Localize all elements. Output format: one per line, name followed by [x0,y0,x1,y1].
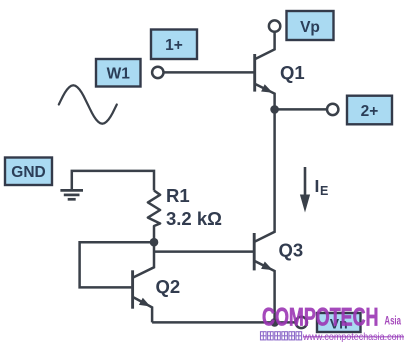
svg-text:1+: 1+ [165,37,183,54]
transistor Q2 (NPN) [133,242,154,322]
svg-text:Asia: Asia [384,316,401,328]
watermark chinese line [261,332,302,340]
ground symbol [60,190,83,199]
terminal circle at W1 [152,67,163,78]
feedback wire (Q2 base to collector node) [80,242,154,287]
label box 2+ [347,96,392,125]
svg-text:COMPOTECH: COMPOTECH [262,304,379,331]
GND wire and stem [72,171,154,191]
bottom wire (Q2 emitter to Vn terminal) [152,321,296,324]
sine wave symbol (W1 source) [59,85,117,123]
svg-text:Vp: Vp [300,19,320,36]
svg-text:Q2: Q2 [156,276,181,297]
svg-text:GND: GND [11,164,45,181]
label box Vp [287,11,334,40]
svg-text:R1: R1 [166,185,190,206]
terminal circle Vp [269,20,280,31]
transistor Q3 (NPN) [254,233,274,322]
svg-text:www.compotechasia.com: www.compotechasia.com [302,332,404,343]
wire W1 terminal to Q1 base [164,71,255,74]
junction dot below Q1 [270,105,279,114]
junction dot below R1 [150,238,159,247]
label box 1+ [151,30,197,60]
main vertical wire (Q1 emitter to Q3 collector) [254,109,274,242]
label box Vn [317,313,361,332]
svg-text:Q3: Q3 [279,240,304,261]
resistor R1 [148,191,160,243]
svg-text:Q1: Q1 [280,62,305,83]
watermark strike line [303,336,404,338]
svg-text:E: E [320,184,328,198]
current arrow IE [300,167,310,213]
svg-text:2+: 2+ [361,103,379,120]
IE label [315,176,329,198]
terminal circle Vn [296,317,307,328]
transistor Q1 (NPN) [255,32,275,110]
label box W1 [96,59,141,87]
junction dot bottom [270,318,279,327]
label box GND [5,158,52,186]
wire node to Q3 base [154,250,254,253]
svg-text:I: I [315,176,320,196]
svg-text:3.2 kΩ: 3.2 kΩ [166,208,222,229]
wire Q1 emitter node to 2+ terminal [275,108,327,111]
svg-text:W1: W1 [107,66,131,83]
terminal circle 2+ [327,104,338,115]
